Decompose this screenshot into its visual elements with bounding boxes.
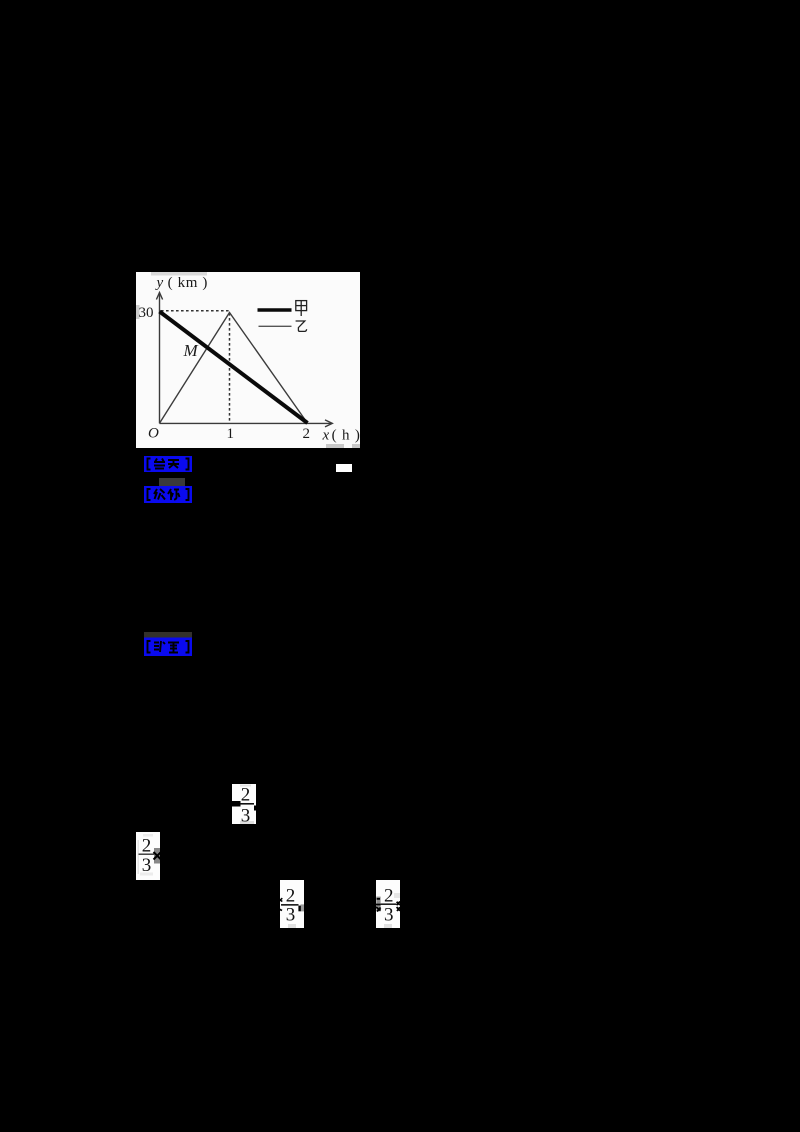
gray smudge above blue label 2 bbox=[159, 478, 185, 486]
svg-text:2: 2 bbox=[384, 885, 394, 906]
legend thin line bbox=[259, 325, 292, 327]
fraction box 2: 2/3 x bbox=[136, 832, 163, 880]
jpeg gray strip top bbox=[151, 272, 207, 276]
svg-text:3: 3 bbox=[286, 905, 296, 926]
svg-text:2: 2 bbox=[286, 886, 296, 907]
svg-text:3: 3 bbox=[384, 905, 394, 926]
svg-text:y( km ): y( km ) bbox=[155, 275, 208, 291]
gray patches bottom right bbox=[326, 444, 344, 448]
text labels bbox=[139, 275, 361, 444]
y axis bbox=[156, 293, 162, 424]
dotted horizontal y=30 bbox=[161, 310, 229, 312]
svg-text:x( h ): x( h ) bbox=[322, 428, 361, 444]
fraction box 4: =2/3 x bbox=[374, 880, 402, 928]
gray patch left of 30 bbox=[136, 305, 140, 319]
legend thick line bbox=[258, 308, 292, 312]
svg-text:O: O bbox=[148, 426, 159, 442]
blue label 2 (analysis) bbox=[144, 486, 192, 503]
x axis bbox=[160, 420, 333, 427]
svg-text:M: M bbox=[183, 341, 199, 360]
svg-text:2: 2 bbox=[142, 836, 152, 857]
thick line (Jia) bbox=[160, 312, 308, 424]
chart figure: distance-time graph image bbox=[136, 272, 360, 448]
dotted vertical x=1 bbox=[229, 313, 231, 423]
blue label 3 (explain) with dark top bbox=[144, 632, 192, 656]
thin line (Yi): triangle bbox=[160, 313, 308, 424]
fraction box 3: 2/3 bbox=[278, 880, 306, 928]
svg-text:3: 3 bbox=[241, 806, 251, 826]
svg-text:30: 30 bbox=[139, 305, 154, 321]
svg-text:2: 2 bbox=[303, 426, 311, 442]
svg-text:1: 1 bbox=[227, 426, 235, 442]
glyph Jia (legend) bbox=[296, 301, 307, 316]
glyph Yi (legend) bbox=[296, 321, 307, 331]
svg-text:3: 3 bbox=[142, 855, 152, 876]
fraction box 1: -2/3 bbox=[226, 783, 258, 825]
blue label 1 (answer) bbox=[144, 456, 192, 472]
white dash (blank underline) bbox=[336, 464, 352, 472]
svg-text:2: 2 bbox=[241, 785, 251, 806]
